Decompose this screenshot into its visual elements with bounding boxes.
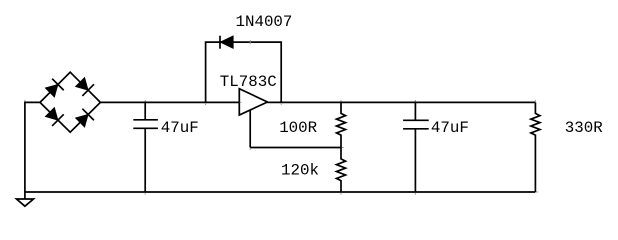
diode D1 (bridge top-left edge, points to top vertex) <box>44 78 65 99</box>
capacitor C2 plates <box>403 119 429 121</box>
svg-text:1N4007: 1N4007 <box>236 13 293 31</box>
junction on bypass wire <box>249 40 251 44</box>
svg-text:47uF: 47uF <box>431 119 469 137</box>
wire bypass loop over regulator <box>206 42 282 102</box>
wire left riser and stub to bridge left vertex <box>25 102 40 199</box>
junction bypass loop left <box>205 103 207 105</box>
capacitor C2 47uF top lead <box>414 102 416 120</box>
junction adjust corner <box>249 148 251 150</box>
junction C1 top <box>144 100 146 102</box>
junction C2 top <box>414 100 416 102</box>
wire adjust pin from regulator bottom <box>249 110 251 148</box>
ground <box>17 199 34 206</box>
capacitor C1 bottom lead <box>144 128 146 192</box>
capacitor C2 bottom lead <box>414 129 416 192</box>
junction bypass loop right <box>280 103 282 105</box>
svg-text:47uF: 47uF <box>161 119 199 137</box>
diode 1N4007 (points left) <box>219 35 233 49</box>
wire bottom ground rail <box>25 191 536 193</box>
capacitor C1 plates <box>133 119 158 121</box>
svg-text:120k: 120k <box>281 161 319 179</box>
resistor R1 100R <box>337 102 346 147</box>
junction R3 top <box>534 100 536 102</box>
svg-text:100R: 100R <box>279 119 317 137</box>
wire adjust run to divider node <box>250 147 341 149</box>
svg-text:330R: 330R <box>565 119 603 137</box>
junction R1 top <box>340 100 342 102</box>
capacitor C1 47uF top lead <box>144 102 146 119</box>
junction regulator input <box>240 101 242 103</box>
resistor R3 330R <box>531 102 540 192</box>
junction C2 bottom <box>414 193 416 195</box>
op-amp U1 TL783C body <box>239 89 267 115</box>
bridge rectifier diamond <box>40 72 100 132</box>
diode D2 (bridge top-right edge, points to right vertex) <box>74 76 95 97</box>
junction R2 bottom <box>340 193 342 195</box>
resistor R2 120k <box>337 148 346 193</box>
junction bottom-right corner <box>536 191 538 193</box>
junction node A divider tap <box>342 147 344 149</box>
diode D4 (bridge bottom-right edge, points to right vertex) <box>74 108 95 129</box>
svg-text:TL783C: TL783C <box>220 73 277 91</box>
junction at top-left corner <box>24 100 26 102</box>
wire top rail from bridge right vertex to regulator input <box>100 101 239 103</box>
wire output rail from regulator apex to right end <box>267 101 535 103</box>
diode D3 (bridge bottom-left edge, points to bottom vertex) <box>44 106 65 127</box>
junction C1 bottom <box>144 193 146 195</box>
